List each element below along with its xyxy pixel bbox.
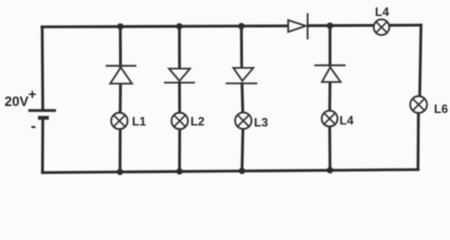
wire right vertical upper xyxy=(420,25,421,96)
lamp L2 xyxy=(172,113,188,129)
diode D4 (branch4, pointing up) xyxy=(314,65,345,82)
wire top left horizontal xyxy=(42,26,288,27)
diode D1 (branch1, pointing up) xyxy=(106,66,137,84)
wire branch4 top xyxy=(329,26,332,65)
wire branch2 middle xyxy=(178,83,181,113)
svg-text:-: - xyxy=(31,118,36,135)
node junction bottom branch2 xyxy=(176,168,182,174)
battery B1 positive plate xyxy=(28,109,56,112)
wire branch2 top xyxy=(178,26,181,68)
node junction top branch4 xyxy=(327,23,333,29)
node junction bottom branch1 xyxy=(117,169,123,175)
lamp L4 (top) xyxy=(374,19,390,35)
wire branch3 top xyxy=(240,26,243,68)
wire branch1 top xyxy=(119,26,122,67)
svg-text:L3: L3 xyxy=(254,115,268,129)
node junction top branch2 xyxy=(176,23,182,29)
svg-text:L4: L4 xyxy=(375,5,389,19)
svg-text:L4: L4 xyxy=(340,113,354,127)
diode D2 (branch2, pointing down) xyxy=(164,69,195,83)
wire branch1 middle xyxy=(119,84,122,113)
lamp L6 xyxy=(410,96,427,113)
wire top from lamp L4 to top-right corner xyxy=(389,24,421,27)
wire branch4 middle xyxy=(328,82,331,111)
wire top after diode to lamp L4 xyxy=(308,24,374,27)
diode D5 (top, pointing right) xyxy=(288,13,307,39)
diode D3 (branch3, pointing down) xyxy=(226,68,258,84)
svg-text:L1: L1 xyxy=(132,115,146,129)
wire branch2 bottom xyxy=(178,129,181,171)
node junction top branch3 xyxy=(238,23,244,29)
wire branch3 middle xyxy=(241,84,245,113)
node junction top branch1 xyxy=(117,23,123,29)
wire branch4 bottom xyxy=(328,127,331,171)
node junction bottom branch4 xyxy=(327,167,333,173)
battery B1 negative plate xyxy=(38,116,49,120)
svg-text:L2: L2 xyxy=(191,115,205,129)
node junction bottom branch3 xyxy=(239,168,245,174)
wire branch3 bottom xyxy=(241,129,245,171)
svg-text:+: + xyxy=(28,86,36,102)
wire left vertical upper xyxy=(41,27,44,109)
svg-text:20V: 20V xyxy=(5,94,29,109)
lamp L4 (branch) xyxy=(322,111,338,127)
svg-text:L6: L6 xyxy=(434,102,448,116)
wire right vertical lower xyxy=(417,113,420,169)
wire branch1 bottom xyxy=(119,129,122,172)
lamp L3 xyxy=(235,113,251,129)
lamp L1 xyxy=(111,113,127,129)
wire bottom horizontal xyxy=(43,170,419,173)
wire left vertical lower xyxy=(41,119,44,172)
